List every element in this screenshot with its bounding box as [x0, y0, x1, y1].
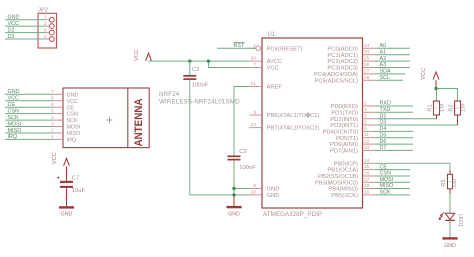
svg-text:SCK: SCK [380, 190, 391, 196]
svg-text:PB6(XTAL1/TOSC1): PB6(XTAL1/TOSC1) [267, 113, 320, 119]
svg-text:28: 28 [364, 75, 370, 81]
junction GND pin22 [232, 193, 235, 196]
U1 pin 14 PB0(ICP) [334, 158, 375, 168]
svg-text:PB0(ICP): PB0(ICP) [334, 161, 359, 167]
svg-text:RXD: RXD [380, 101, 391, 107]
svg-text:22: 22 [251, 189, 257, 195]
svg-text:A3: A3 [380, 62, 387, 68]
U1 pin 20 AVCC [250, 56, 283, 66]
wire net CSN from U1 pin 16 [375, 171, 410, 177]
svg-text:D5: D5 [380, 132, 387, 138]
NRF24 pin 2 MISO [51, 128, 80, 137]
svg-text:8: 8 [51, 95, 54, 101]
svg-text:WIRELESS-NRF24L01SMD: WIRELESS-NRF24L01SMD [159, 98, 240, 105]
svg-text:PC5(ADC5/SCL): PC5(ADC5/SCL) [315, 78, 359, 84]
wire net VCC to JP2 pin 2 [5, 21, 46, 27]
svg-text:A2: A2 [380, 56, 387, 62]
U1 pin 17 PB3(MOSI/OC2) [315, 177, 375, 187]
resistor R1 1M [428, 101, 446, 115]
wire VCC to R1/R2 tops [437, 89, 458, 102]
svg-text:C7: C7 [72, 176, 79, 182]
svg-text:100nF: 100nF [192, 83, 209, 89]
svg-text:PC2(ADC2): PC2(ADC2) [327, 59, 358, 65]
svg-text:VCC: VCC [267, 66, 279, 72]
svg-text:PD2(INT0): PD2(INT0) [330, 117, 358, 123]
wire net CSN to NRF24 [5, 108, 54, 114]
wire AREF to C2 [234, 87, 250, 156]
svg-text:10: 10 [251, 122, 257, 128]
svg-text:U1: U1 [268, 32, 276, 38]
wire net SCK to NRF24 [5, 115, 54, 121]
svg-text:4: 4 [44, 34, 47, 40]
svg-text:R5: R5 [441, 179, 447, 186]
svg-text:VCC: VCC [421, 68, 427, 80]
wire net D3 from U1 pin 5 [375, 120, 458, 126]
NRF24 pin 3 MOSI [51, 121, 80, 130]
svg-text:PD4(XCK/T0): PD4(XCK/T0) [323, 130, 359, 136]
wire net SCK from U1 pin 19 [375, 190, 410, 196]
ground symbol (middle) [226, 195, 241, 218]
svg-text:CE: CE [380, 164, 388, 170]
svg-text:PD3(INT1): PD3(INT1) [330, 123, 358, 129]
svg-text:R2: R2 [449, 104, 455, 111]
svg-text:PD5(T1): PD5(T1) [336, 136, 358, 142]
svg-text:VCC: VCC [8, 21, 19, 27]
U1 pin 18 PB4(MISO) [328, 183, 375, 193]
svg-text:15: 15 [364, 164, 370, 170]
svg-text:MOSI: MOSI [8, 121, 22, 127]
NRF24 pin 1 IRQ [51, 134, 76, 143]
LED LED1 [439, 212, 463, 227]
svg-text:ANTENNA: ANTENNA [133, 98, 145, 146]
wire net RXD from U1 pin 2 [375, 101, 413, 107]
svg-text:D3: D3 [8, 34, 15, 40]
junction VCC pin7 branch [207, 59, 210, 62]
svg-text:14: 14 [364, 158, 370, 164]
svg-text:R1: R1 [428, 104, 434, 111]
junction C3/VCC [188, 59, 191, 62]
svg-text:8: 8 [253, 183, 256, 189]
U1 pin 1 inversion bubble [256, 46, 261, 51]
svg-text:AREF: AREF [267, 85, 283, 91]
power VCC symbol (rail) [134, 49, 152, 61]
svg-text:PB7(XTAL2/TOSC2): PB7(XTAL2/TOSC2) [267, 126, 320, 132]
wire net VCC to NRF24 [5, 96, 54, 102]
svg-text:VCC: VCC [134, 49, 140, 61]
svg-text:19: 19 [364, 189, 370, 195]
resistor R2 1M [449, 101, 467, 115]
svg-text:CSN: CSN [8, 108, 19, 114]
svg-text:C2: C2 [239, 149, 246, 155]
svg-text:5: 5 [51, 108, 54, 114]
svg-text:VCC: VCC [67, 99, 78, 105]
svg-text:1: 1 [51, 134, 54, 140]
svg-text:330: 330 [452, 179, 458, 188]
svg-text:4: 4 [364, 113, 367, 119]
connector JP2 [38, 8, 57, 49]
svg-text:MOSI: MOSI [380, 177, 394, 183]
svg-text:PB5(SCK): PB5(SCK) [331, 193, 358, 199]
ground symbol (LED) [442, 220, 457, 248]
svg-text:PB1(OC1A): PB1(OC1A) [327, 168, 358, 174]
svg-text:VCC: VCC [52, 152, 58, 164]
svg-text:9: 9 [253, 110, 256, 116]
svg-text:PD7(AIN1): PD7(AIN1) [330, 149, 358, 155]
U1 pin 4 PD2(INT0) [330, 113, 375, 123]
svg-text:6: 6 [364, 126, 367, 132]
wire net A3 from U1 pin 26 [375, 62, 410, 68]
svg-text:MISO: MISO [8, 128, 22, 134]
svg-text:2: 2 [364, 101, 367, 107]
wire C3 to GND net [190, 80, 234, 195]
U1 pin 10 PB7(XTAL2/TOSC2) [250, 122, 320, 132]
svg-text:LED1: LED1 [457, 214, 463, 228]
svg-text:IRQ: IRQ [8, 134, 18, 140]
svg-text:GND: GND [444, 243, 456, 249]
svg-text:D4: D4 [380, 126, 387, 132]
wire net A2 from U1 pin 25 [375, 56, 410, 62]
svg-text:ATMEGA328P_PDIP: ATMEGA328P_PDIP [263, 211, 322, 218]
wire net MISO from U1 pin 18 [375, 183, 410, 189]
wire R1 to D2 net [436, 115, 438, 119]
U1 pin 24 PC1(ADC1) [327, 49, 375, 59]
JP2 pin 4 [44, 34, 54, 41]
svg-text:GND: GND [8, 89, 20, 95]
capacitor C7 10uF polarized [56, 176, 85, 194]
svg-text:PB3(MOSI/OC2): PB3(MOSI/OC2) [315, 180, 358, 186]
svg-text:D7: D7 [380, 145, 387, 151]
svg-text:7: 7 [51, 89, 54, 95]
wire net D2 from U1 pin 4 [375, 113, 437, 119]
ground symbol (C7) [59, 188, 74, 218]
IC U1 ATMEGA328P_PDIP body [262, 32, 363, 218]
svg-text:16: 16 [364, 171, 370, 177]
svg-text:21: 21 [251, 81, 257, 87]
svg-text:17: 17 [364, 177, 370, 183]
U1 pin 1 PC6(/RESET) [250, 43, 303, 53]
svg-text:CSN: CSN [380, 171, 391, 177]
svg-text:MISO: MISO [67, 131, 81, 137]
wire net MISO to NRF24 [5, 128, 54, 134]
U1 pin 3 PD1(TXD) [331, 107, 375, 117]
capacitor C2 100nF [228, 149, 257, 171]
svg-text:3: 3 [51, 121, 54, 127]
svg-text:IRQ: IRQ [67, 138, 77, 144]
U1 pin 26 PC3(ADC3) [327, 62, 375, 72]
wire net SCL from U1 pin 28 [375, 75, 403, 81]
U1 pin 28 PC5(ADC5/SCL) [315, 75, 376, 85]
svg-text:27: 27 [364, 68, 370, 74]
wire net D5 from U1 pin 11 [375, 132, 413, 138]
svg-text:C3: C3 [192, 67, 199, 73]
svg-text:RST: RST [234, 43, 245, 49]
svg-text:6: 6 [51, 102, 54, 108]
svg-text:JP2: JP2 [38, 8, 48, 14]
wire net TXD from U1 pin 3 [375, 107, 413, 113]
wire net D4 from U1 pin 6 [375, 126, 413, 132]
svg-text:23: 23 [364, 43, 370, 49]
svg-text:A1: A1 [380, 49, 387, 55]
svg-text:5: 5 [364, 120, 367, 126]
svg-text:GND: GND [228, 212, 240, 218]
wire VCC branch to VCC pin 7 [209, 61, 250, 67]
svg-text:GND: GND [61, 212, 73, 218]
wire R5 to LED1 [449, 194, 451, 214]
U1 pin 25 PC2(ADC2) [327, 56, 375, 66]
origin cross NRF24 [107, 117, 113, 123]
svg-text:NRF24: NRF24 [159, 91, 180, 98]
U1 pin 6 PD4(XCK/T0) [323, 126, 375, 136]
junction VCC pullups [434, 87, 437, 90]
JP2 pin 3 [44, 28, 54, 35]
svg-text:100nF: 100nF [239, 165, 256, 171]
svg-text:10uF: 10uF [72, 188, 86, 194]
svg-text:D3: D3 [380, 120, 387, 126]
svg-text:PD6(AIN0): PD6(AIN0) [330, 142, 358, 148]
module U2 NRF24 WIRELESS-NRF24L01SMD body [63, 88, 240, 148]
svg-text:25: 25 [364, 56, 370, 62]
wire net CE from U1 pin 15 [375, 164, 410, 170]
power VCC symbol (C7 column) [52, 152, 70, 181]
svg-text:MISO: MISO [380, 183, 394, 189]
svg-text:GND: GND [267, 193, 280, 199]
NRF24 pin 4 SCK [51, 115, 78, 124]
svg-text:4: 4 [51, 115, 54, 121]
NRF24 pin 6 CE [51, 102, 74, 111]
NRF24 pin 7 GND [51, 89, 78, 98]
wire GND to U1 pin 22 [234, 194, 250, 196]
wire net D3 to JP2 pin 4 [5, 34, 46, 40]
svg-text:D2: D2 [8, 27, 15, 33]
svg-text:TXD: TXD [380, 107, 391, 113]
U1 pin 16 PB2(SS/OC1B) [318, 171, 375, 181]
svg-text:SDA: SDA [380, 69, 391, 75]
wire net GND to JP2 pin 1 [5, 15, 46, 21]
svg-text:1M: 1M [460, 104, 466, 112]
wire net RST to U1 pin 1 [217, 42, 256, 49]
wire U1 pin14 to R5 [375, 163, 450, 170]
wire net MOSI to NRF24 [5, 121, 54, 127]
svg-text:PD0(RXD): PD0(RXD) [331, 104, 358, 110]
NRF24 pin 8 VCC [51, 95, 78, 104]
U1 pin 19 PB5(SCK) [331, 189, 375, 199]
svg-text:VCC: VCC [8, 96, 19, 102]
U1 pin 15 PB1(OC1A) [327, 164, 375, 174]
svg-text:SCK: SCK [8, 115, 19, 121]
JP2 pin 2 [44, 21, 54, 28]
wire net D2 to JP2 pin 3 [5, 27, 46, 33]
U1 pin 27 PC4(ADC4/SDA) [314, 68, 375, 78]
JP2 pin 1 [44, 15, 54, 22]
origin cross U1 [305, 112, 311, 118]
svg-text:D2: D2 [380, 113, 387, 119]
wire net A1 from U1 pin 24 [375, 49, 410, 55]
svg-text:CSN: CSN [67, 112, 78, 118]
wire net IRQ to NRF24 [5, 134, 54, 140]
U1 pin 7 VCC [250, 62, 279, 72]
U1 pin 12 PD6(AIN0) [330, 139, 375, 149]
U1 pin 2 PD0(RXD) [331, 101, 375, 111]
svg-text:3: 3 [364, 107, 367, 113]
svg-text:20: 20 [251, 56, 257, 62]
resistor R5 330 [441, 170, 458, 194]
U1 pin 21 AREF [250, 81, 283, 91]
svg-text:3: 3 [44, 28, 47, 34]
svg-text:13: 13 [364, 145, 370, 151]
wire GND to U1 pin 8 [234, 188, 250, 190]
svg-text:2: 2 [51, 128, 54, 134]
svg-text:A0: A0 [380, 43, 387, 49]
svg-text:PC6(/RESET): PC6(/RESET) [267, 46, 303, 52]
svg-text:GND: GND [8, 15, 20, 21]
NRF24 pin 5 CSN [51, 108, 78, 117]
power VCC symbol (pullups) [421, 68, 439, 89]
wire C2 to GND junctions [233, 160, 235, 195]
wire net MOSI from U1 pin 17 [375, 177, 410, 183]
wire VCC rail to AVCC pin 20 [149, 60, 250, 62]
junction GND pin8 [232, 187, 235, 190]
wire net CE to NRF24 [5, 102, 54, 108]
svg-text:PC1(ADC1): PC1(ADC1) [327, 53, 358, 59]
U1 pin 23 PC0(ADC0) [327, 43, 375, 53]
svg-text:24: 24 [364, 49, 370, 55]
svg-text:CE: CE [67, 105, 75, 111]
svg-text:26: 26 [364, 62, 370, 68]
svg-text:MOSI: MOSI [67, 125, 81, 131]
svg-text:PC0(ADC0): PC0(ADC0) [327, 46, 358, 52]
svg-text:7: 7 [253, 62, 256, 68]
capacitor C3 100nF [183, 61, 208, 89]
svg-text:11: 11 [364, 132, 369, 138]
wire R2 to D3 net [457, 115, 459, 125]
svg-text:PB2(SS/OC1B): PB2(SS/OC1B) [318, 174, 358, 180]
svg-text:PC3(ADC3): PC3(ADC3) [327, 66, 358, 72]
svg-text:12: 12 [364, 139, 370, 145]
svg-text:PC4(ADC4/SDA): PC4(ADC4/SDA) [314, 72, 358, 78]
wire net D6 from U1 pin 12 [375, 139, 413, 145]
svg-text:2: 2 [44, 21, 47, 27]
wire net A0 from U1 pin 23 [375, 43, 410, 49]
svg-text:SCK: SCK [67, 118, 78, 124]
U1 pin 11 PD5(T1) [336, 132, 375, 142]
svg-text:D6: D6 [380, 139, 387, 145]
U1 pin 5 PD3(INT1) [330, 120, 375, 130]
svg-text:GND: GND [267, 187, 280, 193]
svg-text:PD1(TXD): PD1(TXD) [331, 110, 358, 116]
wire net D7 from U1 pin 13 [375, 145, 413, 151]
U1 pin 22 GND [250, 189, 280, 199]
svg-text:GND: GND [67, 92, 79, 98]
svg-text:+: + [56, 176, 60, 182]
svg-text:CE: CE [8, 102, 16, 108]
wire net GND to NRF24 [5, 89, 54, 95]
svg-text:PB4(MISO): PB4(MISO) [328, 187, 358, 193]
wire net SDA from U1 pin 27 [375, 69, 405, 75]
svg-text:1M: 1M [439, 104, 445, 112]
svg-text:18: 18 [364, 183, 370, 189]
svg-text:1: 1 [44, 15, 47, 21]
svg-text:SCL: SCL [380, 75, 391, 81]
svg-text:AVCC: AVCC [267, 59, 283, 65]
ANTENNA label [133, 98, 145, 146]
U1 pin 13 PD7(AIN1) [330, 145, 375, 155]
U1 pin 9 PB6(XTAL1/TOSC1) [250, 110, 320, 120]
U1 pin 8 GND [250, 183, 280, 193]
